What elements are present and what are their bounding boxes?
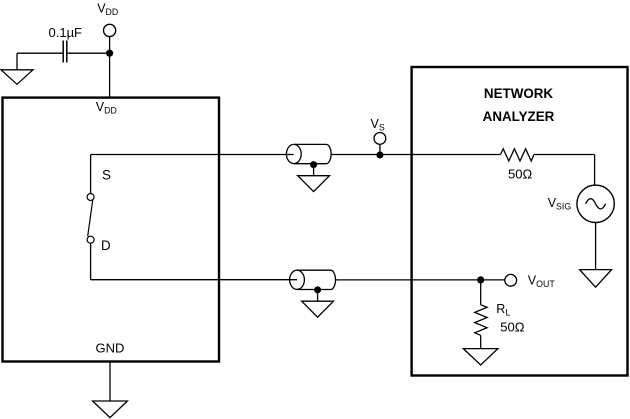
wire coax top shield to ground	[313, 165, 315, 176]
wire VS terminal stem	[379, 144, 381, 154]
NETWORK ANALYZER box	[412, 67, 628, 376]
svg-text:NETWORK: NETWORK	[484, 86, 554, 101]
wire resistor to corner	[534, 154, 595, 156]
wire junction to capacitor	[67, 52, 110, 54]
svg-text:VDD: VDD	[96, 100, 117, 115]
wire S to top coax	[91, 154, 294, 156]
wire VSIG to ground	[595, 223, 597, 270]
coax cable bottom (end ellipse)	[290, 270, 305, 289]
wire coax bottom shield to ground	[317, 290, 319, 301]
ground (coax top)	[298, 176, 330, 192]
wire D to bottom coax	[91, 279, 297, 281]
wire VDD terminal to junction	[109, 37, 111, 54]
svg-text:GND: GND	[96, 341, 125, 356]
capacitor C1 0.1uF plates	[62, 41, 64, 63]
svg-text:VS: VS	[371, 117, 385, 132]
ground (RL)	[463, 349, 498, 365]
ground (coax bottom)	[302, 301, 334, 317]
svg-text:RL: RL	[496, 302, 510, 317]
node junction coax top shield	[310, 161, 317, 168]
svg-text:0.1µF: 0.1µF	[49, 25, 83, 40]
ground (VSIG)	[580, 270, 612, 288]
ground (capacitor)	[1, 70, 33, 85]
wire coax top to resistor (through VS node into analyzer)	[331, 154, 501, 156]
svg-text:ANALYZER: ANALYZER	[483, 109, 555, 124]
terminal VOUT circle	[505, 274, 517, 286]
svg-text:VOUT: VOUT	[528, 274, 556, 289]
coax cable bottom (body)	[297, 270, 335, 289]
ground (DUT GND)	[93, 401, 128, 418]
wire RL to ground	[480, 335, 482, 348]
terminal VS circle	[374, 133, 386, 145]
coax cable top (body)	[294, 144, 331, 163]
resistor RL 50 ohm (load)	[475, 305, 487, 336]
source VSIG circle	[577, 185, 614, 222]
svg-text:S: S	[102, 168, 111, 183]
svg-text:50Ω: 50Ω	[508, 167, 532, 182]
resistor 50 ohm (source)	[501, 149, 535, 161]
wire coax bottom to VOUT terminal	[336, 279, 505, 281]
wire corner down to VSIG	[594, 155, 596, 186]
wire down to S contact	[90, 155, 92, 194]
svg-text:VDD: VDD	[97, 2, 118, 17]
wire VDD junction into DUT box	[109, 53, 111, 97]
power terminal VDD circle	[104, 24, 116, 36]
node VOUT junction	[477, 276, 484, 283]
sine wave inside VSIG	[586, 199, 606, 209]
coax cable top (end ellipse)	[286, 144, 301, 163]
DUT box	[3, 98, 220, 362]
switch D contact circle	[87, 236, 94, 243]
wire capacitor to left corner	[17, 52, 63, 54]
node junction coax bottom shield	[314, 286, 321, 293]
switch S contact circle	[87, 194, 94, 201]
wire GND pin down	[109, 362, 111, 402]
wire down to ground (left)	[16, 53, 18, 70]
svg-text:D: D	[101, 238, 111, 253]
wire VOUT junction down to RL	[480, 280, 482, 305]
node VS junction	[376, 152, 383, 159]
wire D contact down	[90, 243, 92, 279]
svg-text:VSIG: VSIG	[548, 196, 572, 211]
svg-text:50Ω: 50Ω	[500, 319, 524, 334]
node junction (VDD / C1)	[106, 50, 113, 57]
switch arm	[88, 200, 93, 236]
